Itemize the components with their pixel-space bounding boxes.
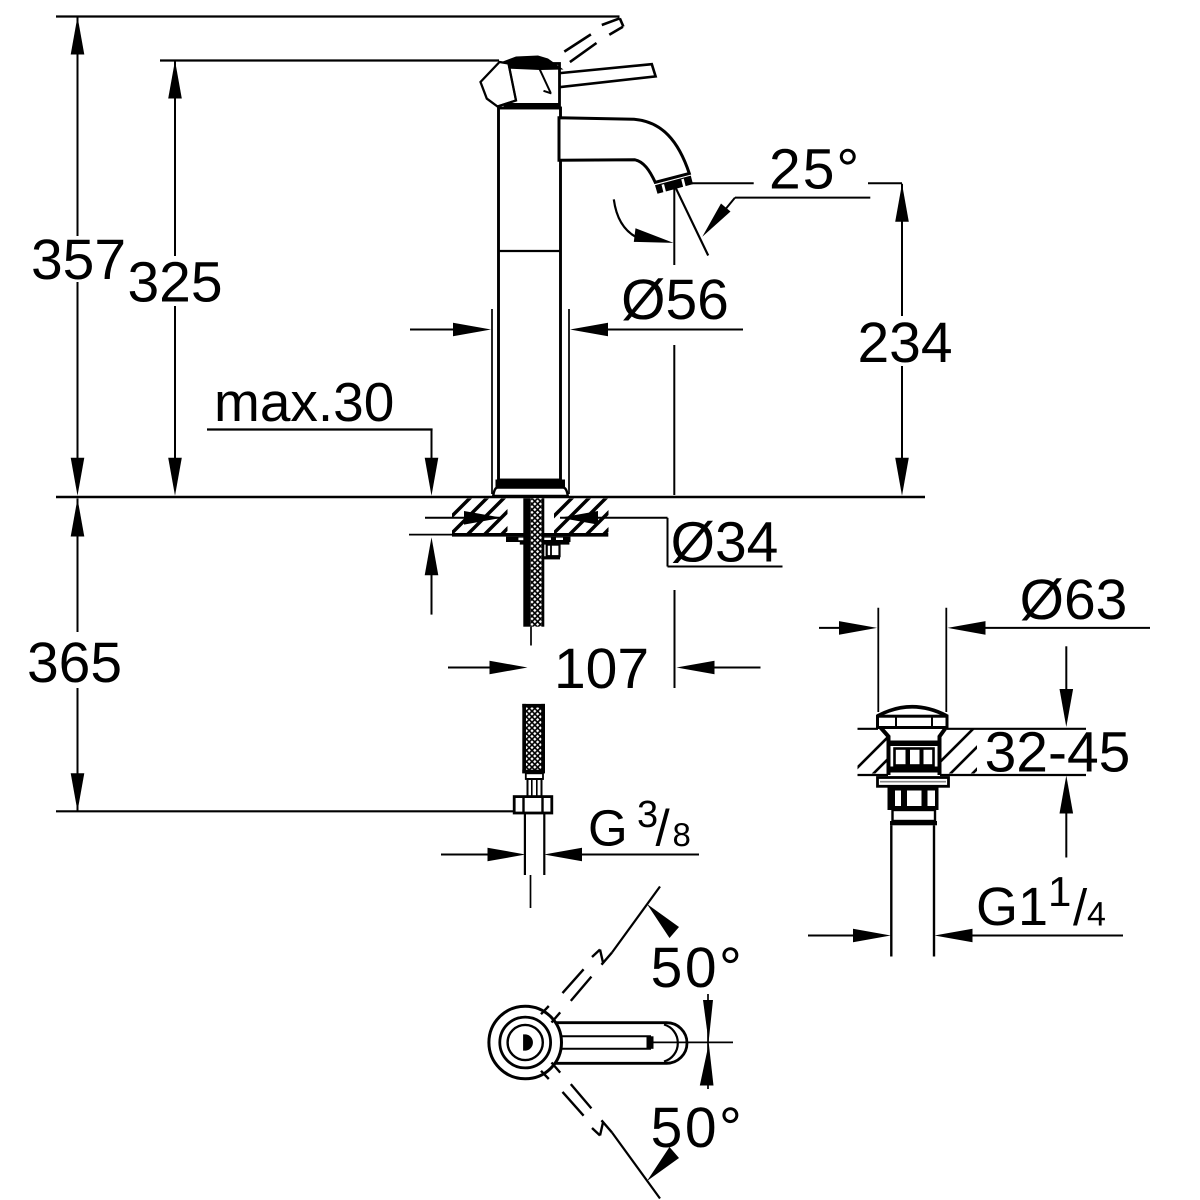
curved rotation arrow bbox=[614, 199, 642, 239]
aerator black band bbox=[655, 176, 693, 194]
svg-text:357: 357 bbox=[31, 228, 126, 292]
extension lines bbox=[877, 608, 879, 712]
reference line (height 325) bbox=[160, 59, 499, 61]
handle base bbox=[505, 64, 560, 108]
svg-text:1: 1 bbox=[1048, 868, 1071, 915]
svg-text:Ø63: Ø63 bbox=[1020, 568, 1128, 632]
vertical from spout tip bbox=[673, 188, 675, 265]
base top black blob bbox=[498, 56, 564, 71]
lower dashed line bbox=[563, 1092, 584, 1116]
wall hatch bbox=[843, 728, 919, 782]
svg-text:325: 325 bbox=[127, 251, 222, 315]
svg-text:/: / bbox=[656, 800, 671, 857]
lever outline bbox=[552, 1023, 687, 1064]
svg-text:32-45: 32-45 bbox=[985, 721, 1131, 785]
washer below wall bbox=[878, 778, 949, 787]
inner diagonal bbox=[538, 66, 550, 92]
nut bbox=[514, 797, 552, 813]
svg-text:107: 107 bbox=[554, 637, 649, 701]
centerline bbox=[651, 1041, 733, 1043]
svg-text:G: G bbox=[588, 800, 628, 857]
svg-text:8: 8 bbox=[673, 816, 691, 853]
centerline below rod bbox=[530, 627, 532, 646]
inner slot bbox=[561, 1035, 651, 1037]
base black bar bbox=[496, 480, 566, 488]
lever (horizontal) bbox=[556, 64, 656, 87]
svg-text:Ø34: Ø34 bbox=[671, 511, 779, 575]
left cap bbox=[481, 62, 517, 107]
ticks on circle bbox=[541, 1006, 549, 1014]
svg-text:G1: G1 bbox=[976, 877, 1048, 937]
raised lever dashed bbox=[564, 34, 591, 51]
hose end reference line bbox=[56, 810, 514, 812]
basin surface lines bbox=[858, 728, 879, 730]
base skirt bbox=[493, 488, 568, 496]
tube below bbox=[524, 813, 526, 875]
body through wall bbox=[881, 728, 947, 776]
svg-text:4: 4 bbox=[1087, 896, 1106, 934]
svg-text:234: 234 bbox=[857, 311, 952, 375]
threaded collar bbox=[888, 786, 939, 810]
slab bottom thick line bbox=[452, 533, 608, 537]
nut bbox=[520, 542, 570, 545]
band below bbox=[893, 810, 936, 821]
svg-text:365: 365 bbox=[27, 631, 122, 695]
rod: black sides + checker bbox=[523, 498, 530, 626]
washer under slab bbox=[506, 537, 571, 542]
svg-text:50°: 50° bbox=[651, 1096, 745, 1160]
circles bbox=[489, 1006, 562, 1079]
connector bbox=[526, 773, 543, 779]
base bottom black bar bbox=[504, 103, 560, 109]
svg-text:50°: 50° bbox=[651, 936, 745, 1000]
tilted outlet line bbox=[676, 188, 708, 255]
svg-text:/: / bbox=[1073, 879, 1088, 936]
tailpipe bbox=[890, 825, 892, 956]
bowtie arrows bbox=[707, 994, 709, 1089]
top reference line (height 357) bbox=[56, 15, 620, 17]
svg-text:25°: 25° bbox=[769, 138, 861, 202]
dome cap bbox=[878, 707, 948, 716]
upper dashed line bbox=[563, 969, 584, 993]
svg-text:max.30: max.30 bbox=[214, 371, 394, 433]
svg-text:Ø56: Ø56 bbox=[621, 268, 729, 332]
